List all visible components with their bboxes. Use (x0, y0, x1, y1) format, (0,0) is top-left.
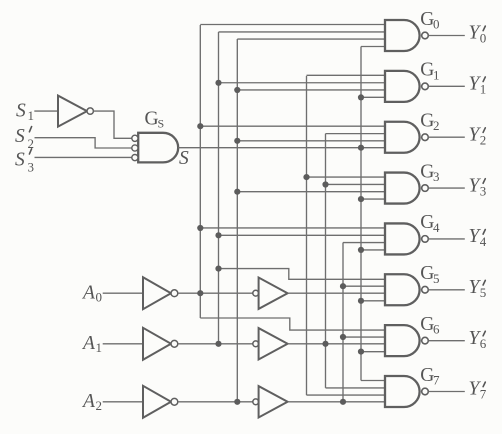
svg-text:A: A (81, 391, 95, 412)
NAND gate G1 (385, 71, 420, 102)
output bubble G0 (422, 32, 429, 39)
wire to gate G3 input 1 (307, 176, 386, 178)
junction dot 22 (358, 298, 364, 304)
junction dot 5 (215, 232, 221, 238)
wire A1 input (103, 343, 143, 345)
wire A0 true to gate G5 input 3 (288, 292, 385, 294)
wire to gate G1 input 3 (237, 89, 385, 91)
junction dot 19 (358, 145, 364, 151)
NAND gate G4 (385, 223, 420, 254)
wire S1 input (34, 110, 58, 112)
wire S3' input to Gs input 3 (35, 156, 133, 158)
wire output Y7 (428, 390, 464, 392)
output bubble G5 (422, 286, 429, 293)
junction dot 21 (358, 247, 364, 253)
junction dot 7 (215, 341, 221, 347)
wire to gate G2 input 2 (326, 133, 386, 135)
svg-text:7: 7 (433, 372, 440, 387)
wire trunk A2 vertical (342, 243, 344, 402)
AND gate Gs (enable) (138, 133, 178, 163)
svg-text:0: 0 (96, 290, 103, 305)
svg-text:3: 3 (433, 169, 440, 184)
wire output Y3 (428, 187, 464, 189)
wire to gate G0 input 2 (219, 31, 386, 33)
junction dot 1 (197, 123, 203, 129)
inverter second stage A0 (253, 290, 259, 296)
inverter first stage A0 (143, 277, 171, 309)
NAND gate G5 (385, 274, 420, 305)
inverter first stage A2 (143, 386, 171, 418)
NAND gate G7 (385, 376, 420, 407)
junction dot 17 (340, 399, 346, 405)
wire to gate G4 input 3 (343, 242, 385, 244)
svg-text:G: G (145, 109, 159, 130)
junction dot 3 (197, 290, 203, 296)
wire to gate G0 input 1 (200, 24, 385, 26)
junction dot 15 (340, 283, 346, 289)
wire trunk A1 vertical (325, 134, 327, 388)
wire A2 complement segment (178, 401, 253, 403)
junction dot 23 (358, 349, 364, 355)
wire to gate G7 input 2 (326, 387, 386, 389)
wire output Y1 (428, 85, 464, 87)
junction dot 20 (358, 196, 364, 202)
wire to gate G5 input 2 (343, 285, 385, 287)
wire S from Gs to gate G2 input 4 (178, 147, 385, 149)
junction dot 8 (234, 87, 240, 93)
wire to gate G0 input 4 (361, 46, 385, 48)
svg-text:4: 4 (480, 234, 487, 249)
junction dot 13 (322, 181, 328, 187)
wire output Y5 (428, 289, 464, 291)
wire output Y0 (428, 35, 464, 37)
wire trunk S vertical (360, 47, 362, 381)
output bubble G6 (422, 337, 429, 344)
svg-text:6: 6 (433, 322, 440, 337)
output bubble G2 (422, 134, 429, 141)
wire A0 complement segment (178, 292, 253, 294)
wire trunk A2' vertical (236, 39, 238, 402)
svg-text:1: 1 (96, 340, 103, 355)
wire to gate G3 input 3 (237, 191, 385, 193)
wire to gate G5 input 4 (361, 300, 385, 302)
svg-text:6: 6 (480, 336, 487, 351)
svg-text:4: 4 (433, 220, 440, 235)
svg-text:S: S (179, 148, 189, 169)
junction dot 11 (234, 399, 240, 405)
wire trunk A0' vertical (199, 25, 201, 318)
svg-text:3: 3 (28, 160, 35, 175)
junction dot 10 (234, 189, 240, 195)
svg-text:2: 2 (96, 398, 103, 413)
wire to gate G1 input 4 (361, 96, 385, 98)
svg-text:3: 3 (480, 183, 487, 198)
wire trunk A1' vertical (218, 32, 220, 344)
wire to gate G2 input 1 (200, 125, 385, 127)
junction dot 12 (303, 174, 309, 180)
svg-text:7: 7 (480, 387, 487, 402)
inverter second stage A2 (253, 399, 259, 405)
inverter second stage A1 (253, 341, 259, 347)
svg-text:S: S (158, 117, 165, 131)
wire to gate G4 input 1 (200, 227, 385, 229)
junction dot 4 (215, 80, 221, 86)
wire to gate G2 input 3 (237, 140, 385, 142)
wire to gate G4 input 2 (219, 234, 386, 236)
svg-text:S: S (15, 126, 25, 147)
junction dot 2 (197, 225, 203, 231)
wire to gate G6 input 4 (361, 351, 385, 353)
junction dot 18 (358, 94, 364, 100)
NAND gate G6 (385, 325, 420, 356)
svg-text:1: 1 (433, 67, 440, 82)
input bubbles of Gs (132, 135, 138, 141)
wire S2' input to Gs input 2 (35, 138, 133, 148)
NAND gate G2 (385, 122, 420, 153)
wire to gate G4 input 4 (361, 249, 385, 251)
output bubble G4 (422, 236, 429, 243)
wire to gate G6 input 2 (343, 336, 385, 338)
wire to gate G1 input 1 (307, 74, 386, 76)
wire A1 true to gate G6 input 3 (288, 343, 385, 345)
inverter first stage A1 (143, 328, 171, 360)
wire jog trunk A1' to gate G5 input 1 (219, 269, 386, 280)
wire to gate G7 input 3 (307, 394, 386, 396)
wire A2 input (103, 401, 143, 403)
output bubble G7 (422, 388, 429, 395)
wire trunk A0' jog to gate G6 input 1 (200, 318, 385, 330)
wire A1 complement segment (178, 343, 253, 345)
wire to gate G1 input 2 (219, 82, 386, 84)
svg-text:A: A (81, 282, 95, 303)
junction dot 9 (234, 138, 240, 144)
wire to gate G3 input 4 (361, 198, 385, 200)
svg-text:5: 5 (480, 285, 487, 300)
svg-text:1: 1 (28, 108, 35, 123)
NAND gate G0 (385, 20, 420, 51)
svg-text:0: 0 (433, 17, 440, 32)
svg-text:0: 0 (480, 31, 487, 46)
wire trunk A0 vertical (306, 76, 308, 395)
output bubble G1 (422, 83, 429, 90)
wire to gate G0 input 3 (237, 38, 385, 40)
svg-text:S: S (15, 150, 25, 171)
svg-text:2: 2 (480, 132, 487, 147)
svg-text:2: 2 (433, 118, 440, 133)
wire to gate G7 input 1 (361, 379, 385, 381)
wire A2 true to gate G7 input 4 (288, 401, 385, 403)
wire output Y6 (428, 340, 464, 342)
svg-text:5: 5 (433, 271, 440, 286)
wire to gate G3 input 2 (326, 183, 386, 185)
junction dot 6 (215, 266, 221, 272)
svg-text:1: 1 (480, 82, 487, 97)
svg-text:S: S (16, 101, 26, 122)
junction dot 16 (340, 334, 346, 340)
svg-text:A: A (81, 333, 95, 354)
output bubble G3 (422, 185, 429, 192)
inverter U1 (S1) (58, 96, 87, 127)
NAND gate G3 (385, 173, 420, 204)
wire output Y4 (428, 238, 464, 240)
wire output Y2 (428, 136, 464, 138)
wire U1 output to Gs input 1 (93, 111, 132, 138)
svg-text:2: 2 (28, 136, 35, 151)
wire A0 input (103, 292, 143, 294)
junction dot 14 (322, 341, 328, 347)
